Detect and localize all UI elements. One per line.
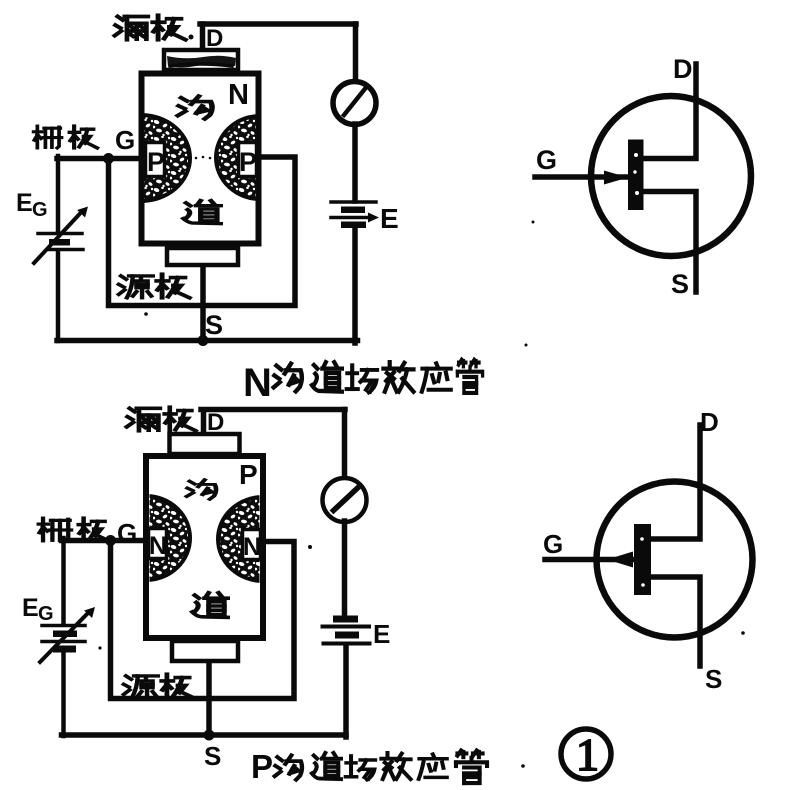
battery EG variable	[42, 624, 85, 628]
svg-text:S: S	[705, 664, 722, 694]
battery E plates	[331, 200, 376, 204]
svg-text:S: S	[671, 269, 689, 299]
wire drain top horizontal	[200, 21, 356, 27]
wire source S vertical	[200, 266, 206, 341]
svg-text:G: G	[117, 518, 137, 548]
svg-text:G: G	[543, 529, 563, 559]
svg-text:N: N	[243, 361, 272, 405]
N label box left	[149, 529, 167, 559]
wire EG vertical bottom	[56, 252, 61, 341]
gate lead G with arrow	[545, 557, 634, 563]
P gate region right (stippled)	[216, 116, 304, 199]
label 沟	[178, 96, 212, 119]
battery E plates	[333, 616, 358, 623]
figure number 1 circled	[561, 729, 611, 779]
source electrode plate	[167, 248, 238, 265]
N gate region right (stippled)	[218, 497, 308, 581]
svg-text:E: E	[380, 203, 399, 234]
drain electrode plate	[170, 434, 240, 454]
junction G	[105, 535, 116, 546]
wire bottom horizontal	[57, 338, 358, 344]
gate bar	[628, 140, 644, 211]
speckle dots (scan noise)	[255, 94, 258, 97]
wire meter to battery E	[352, 124, 358, 201]
P label box left	[146, 143, 165, 177]
wire inner gate loop	[109, 157, 296, 306]
N gate region left (stippled)	[102, 496, 190, 580]
label 栅极 G (gate caption)	[34, 126, 62, 148]
wire EG vertical top	[56, 156, 61, 231]
label 栅极 G	[39, 518, 71, 541]
label 源极 (source caption)	[119, 276, 153, 298]
wire drain top horizontal	[201, 407, 345, 413]
N label box right	[243, 530, 261, 560]
wire inner gate loop	[111, 540, 295, 699]
svg-text:E: E	[373, 619, 390, 649]
FET body outline	[142, 74, 259, 244]
label 源极	[124, 676, 158, 698]
label 漏极	[127, 408, 160, 430]
label 沟	[187, 480, 216, 499]
node D terminal	[200, 24, 206, 50]
svg-text:P: P	[239, 459, 258, 490]
wire meter to battery E	[342, 521, 348, 617]
svg-text:S: S	[204, 741, 221, 771]
svg-text:N: N	[228, 79, 249, 111]
junction S bottom	[204, 730, 215, 741]
junction G	[103, 153, 114, 164]
source lead S	[644, 192, 696, 293]
gate lead G with arrow	[535, 174, 627, 180]
FET symbol circle U2	[597, 482, 753, 638]
svg-text:E: E	[22, 594, 39, 622]
svg-text:D: D	[700, 407, 719, 437]
gate bar	[634, 524, 651, 595]
svg-text:1: 1	[576, 729, 599, 780]
wire gate horizontal	[62, 538, 147, 544]
wire gate horizontal	[57, 156, 141, 162]
P label box right	[239, 143, 257, 177]
svg-text:G: G	[32, 199, 48, 221]
wire battery E down	[352, 228, 358, 343]
label 漏极 (drain electrode caption)	[115, 16, 148, 39]
svg-text:N: N	[243, 533, 261, 561]
wire battery E down	[343, 647, 349, 737]
svg-text:G: G	[536, 145, 557, 175]
junction S bottom	[198, 335, 209, 346]
P gate region left (stippled)	[92, 115, 190, 201]
drain electrode plate	[164, 50, 238, 70]
wire EG vertical top	[61, 538, 66, 622]
svg-text:G: G	[38, 603, 54, 625]
wire bottom horizontal	[62, 732, 347, 738]
svg-text:D: D	[673, 54, 693, 84]
svg-text:E: E	[16, 189, 33, 217]
node D terminal	[201, 410, 207, 434]
svg-text:P: P	[251, 748, 273, 785]
wire right vertical to meter	[353, 24, 359, 81]
FET body outline	[146, 456, 263, 638]
svg-text:P: P	[239, 147, 257, 177]
source electrode plate	[172, 641, 238, 661]
meter M1	[333, 82, 376, 125]
svg-text:N: N	[149, 532, 167, 560]
channel constriction dots	[195, 157, 198, 160]
drain lead D	[652, 425, 700, 539]
drain lead D	[644, 64, 696, 159]
meter M2	[323, 478, 367, 522]
svg-text:P: P	[147, 147, 165, 177]
label 道	[183, 201, 220, 224]
battery EG variable	[38, 232, 82, 236]
svg-text:S: S	[205, 310, 223, 340]
wire right vertical to meter	[342, 410, 348, 479]
wire EG vertical bottom	[61, 653, 66, 736]
source lead S	[652, 577, 700, 666]
svg-text:G: G	[115, 125, 135, 155]
wire source S vertical	[206, 662, 212, 735]
label 道	[192, 593, 227, 618]
FET symbol circle U1	[591, 96, 751, 256]
